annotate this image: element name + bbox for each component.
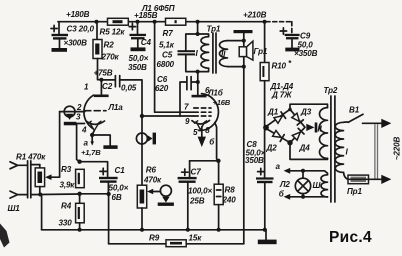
svg-text:R2: R2: [104, 41, 115, 50]
svg-text:+180В: +180В: [66, 10, 90, 19]
svg-text:5: 5: [193, 128, 198, 137]
svg-text:Тр2: Тр2: [324, 86, 338, 95]
tube L1b pentode envelope: [199, 94, 219, 131]
capacitor C7 100,0x25V: [178, 161, 213, 230]
svg-text:3: 3: [76, 113, 81, 122]
ground bar under C4: [131, 47, 146, 51]
Tr1 core: [207, 25, 221, 74]
svg-text:100,0×: 100,0×: [188, 187, 213, 196]
svg-text:R4: R4: [61, 202, 72, 211]
wire screen grid feed to pin 7: [155, 22, 194, 113]
svg-text:+185В: +185В: [134, 11, 158, 20]
potentiometer R1 470k: [16, 153, 46, 195]
wire switch to mains arrow: [363, 122, 383, 124]
node +210V label: [243, 11, 267, 20]
capacitor C1 50,0x6V: [80, 162, 129, 202]
wire grid line L1a: [60, 111, 85, 113]
svg-text:4: 4: [81, 126, 87, 135]
svg-text:Д2: Д2: [266, 144, 278, 153]
Tr2 winding II: [320, 108, 328, 159]
Tr2 winding I mains: [335, 122, 349, 179]
L1b anode: [192, 72, 211, 98]
node junction +210V rail: [263, 20, 267, 24]
resistor R5 12k: [100, 18, 129, 36]
svg-text:0,05: 0,05: [121, 84, 137, 93]
resistor R8 240: [214, 161, 236, 230]
label +75V: [94, 69, 113, 78]
svg-text:С6: С6: [157, 75, 168, 84]
node +180V label: [66, 10, 90, 19]
label Ris.4: [329, 229, 372, 246]
Tr2 core: [324, 86, 338, 202]
test point a stub: [81, 135, 101, 157]
node junction screen feed: [153, 20, 157, 24]
wire bus left riser: [41, 195, 43, 230]
svg-text:а: а: [276, 162, 281, 171]
svg-text:6800: 6800: [157, 60, 175, 69]
node junction C4: [136, 20, 140, 24]
wire rail to bridge: [264, 81, 266, 128]
svg-text:470к: 470к: [143, 176, 162, 185]
node bridge bottom vertex: [287, 140, 292, 145]
svg-text:Рис.4: Рис.4: [329, 229, 372, 246]
test point R6 wiper: [158, 185, 174, 206]
svg-text:9: 9: [185, 117, 190, 126]
L1b grid dashes: [184, 103, 211, 127]
svg-text:+210В: +210В: [243, 11, 267, 20]
svg-text:620: 620: [155, 84, 169, 93]
L1a grid dashes: [76, 103, 106, 112]
diode D1: [267, 108, 286, 124]
L1b cathode: [192, 120, 210, 124]
wire down to R6: [141, 116, 143, 185]
wire pin8 down: [215, 123, 219, 161]
svg-text:С3 20,0: С3 20,0: [67, 25, 95, 34]
test point on grid wire: [136, 133, 156, 145]
svg-text:~220В: ~220В: [393, 137, 402, 161]
svg-text:240: 240: [222, 196, 237, 205]
L1b heater: [195, 121, 207, 130]
svg-text:50,0×: 50,0×: [109, 184, 129, 193]
svg-text:Ш: Ш: [313, 181, 322, 190]
diode D3: [292, 108, 312, 126]
svg-text:50,0×: 50,0×: [129, 54, 149, 63]
wire input bottom to R3 node: [31, 193, 80, 196]
svg-text:15к: 15к: [189, 234, 203, 243]
potentiometer R6 470k: [137, 166, 162, 230]
svg-text:С7: С7: [191, 168, 202, 177]
diode D2: [266, 131, 285, 153]
wire heater to chassis: [92, 135, 110, 145]
node R3 bottom: [77, 192, 81, 196]
svg-text:R7: R7: [163, 29, 174, 38]
svg-text:Ш1: Ш1: [8, 204, 21, 213]
wire R2 to anode node: [98, 59, 102, 80]
node lamp top: [301, 169, 305, 173]
wire +210V rail down: [264, 22, 266, 63]
svg-text:Д4: Д4: [299, 144, 311, 153]
label winding II Tr2: [317, 125, 322, 134]
R1 wiper arm: [45, 112, 60, 180]
label L1a: [108, 103, 124, 112]
svg-text:а: а: [84, 139, 89, 148]
svg-text:Д 7Ж: Д 7Ж: [271, 91, 292, 100]
svg-text:×300В: ×300В: [64, 39, 88, 48]
scan artifact bottom left: [0, 224, 10, 248]
loudspeaker Gr1: [239, 41, 268, 60]
svg-text:Д1: Д1: [267, 108, 279, 117]
node dots on bus: [78, 228, 267, 232]
node dots on loop: [196, 32, 200, 74]
resistor R10*: [260, 59, 292, 81]
svg-text:2: 2: [76, 103, 82, 112]
ground bus: [42, 229, 266, 231]
resistor R4 330: [59, 194, 85, 230]
node C6 anode junction: [196, 80, 200, 84]
svg-text:R3: R3: [61, 165, 72, 174]
svg-text:Тр1: Тр1: [207, 25, 221, 34]
label L1 6F5P top: [141, 4, 175, 13]
wire C1 node down to R9: [108, 194, 110, 244]
ground bar under C9: [285, 48, 299, 52]
svg-text:+16В: +16В: [213, 98, 231, 107]
wire cathode pin3: [77, 124, 85, 162]
node anode junction: [99, 78, 103, 82]
mains arrow top: [381, 119, 391, 128]
wire +180V top rail: [58, 21, 264, 23]
diode bridge frame: [265, 109, 305, 142]
svg-text:270к: 270к: [101, 53, 120, 62]
svg-text:Л2: Л2: [279, 180, 290, 189]
svg-text:Пр1: Пр1: [347, 187, 362, 196]
ground T-bar speaker line: [234, 30, 253, 33]
svg-text:R9: R9: [149, 234, 160, 243]
svg-text:R8: R8: [225, 186, 236, 195]
svg-text:+1,7В: +1,7В: [81, 148, 101, 157]
svg-text:R1 470к: R1 470к: [16, 153, 46, 162]
node heater pin4: [90, 133, 94, 137]
resistor R9 15k feedback: [109, 234, 244, 247]
lamp circuit wire b: [279, 190, 328, 200]
capacitor C5 6800 with loop: [157, 34, 198, 72]
svg-text:С4: С4: [141, 38, 152, 47]
wire cathode node horizontal: [190, 160, 219, 162]
wire bridge AC loop to Tr2 winding II: [290, 104, 328, 159]
lamp circuit wire a: [276, 162, 328, 175]
switch V1: [344, 106, 364, 123]
svg-text:Д3: Д3: [300, 108, 312, 117]
resistor R7 5,1k: [159, 18, 186, 49]
svg-text:В1: В1: [349, 106, 360, 115]
L1a cathode: [76, 113, 105, 125]
svg-text:R5 12к: R5 12к: [100, 28, 126, 37]
Tr2 winding III: [313, 175, 328, 197]
R6 wiper arm: [147, 189, 160, 195]
svg-text:С2: С2: [102, 82, 113, 91]
transformer Tr1 primary winding I: [196, 34, 209, 72]
svg-text:7: 7: [184, 103, 189, 112]
node junction R2/top rail: [95, 20, 99, 24]
test point pin5 arrow b: [193, 126, 215, 147]
label +185V: [134, 11, 158, 20]
capacitor C6 620: [155, 75, 198, 116]
ground bar under C3: [52, 48, 68, 52]
node junction Tr1 top: [196, 20, 200, 24]
lamp L2: [279, 171, 311, 197]
node pin8/R8: [216, 159, 220, 163]
capacitor C4 50,0x350V: [128, 22, 151, 72]
node cathode / R3 top: [77, 160, 81, 164]
svg-text:Гр1: Гр1: [254, 47, 268, 56]
svg-text:3,9к: 3,9к: [60, 181, 76, 190]
svg-text:Л1б: Л1б: [207, 89, 224, 98]
capacitor C2 0,05: [101, 76, 142, 116]
svg-text:С9: С9: [300, 32, 311, 41]
fuse Pr1: [347, 175, 383, 196]
node bridge top vertex: [288, 108, 292, 112]
svg-text:350В: 350В: [128, 63, 147, 72]
node C2 output: [140, 114, 144, 118]
label ~220V rotated: [393, 137, 402, 161]
L1a heater: [81, 121, 101, 135]
mains cable lines: [375, 124, 378, 178]
connector Sh1 input: [8, 161, 31, 213]
test point grid L1a: [64, 106, 77, 125]
svg-text:6В: 6В: [112, 193, 122, 202]
svg-text:+75В: +75В: [94, 69, 113, 78]
diode D4: [292, 128, 310, 152]
ground symbol bus right: [258, 230, 277, 244]
svg-text:Л1а: Л1а: [108, 103, 124, 112]
svg-text:330: 330: [59, 219, 73, 228]
wire to C5/winding loop: [197, 22, 199, 34]
svg-text:25В: 25В: [189, 197, 205, 206]
ground bar heater: [103, 145, 117, 149]
node R1 bottom: [38, 193, 42, 197]
svg-text:С5: С5: [162, 51, 173, 60]
capacitor C8 50,0x350V: [245, 128, 274, 230]
capacitor C3: [51, 22, 94, 48]
wire grid1 line L1b: [142, 115, 194, 117]
label L1b: [207, 89, 231, 108]
resistor R2 270k: [93, 22, 120, 62]
svg-text:5,1к: 5,1к: [159, 41, 175, 50]
node C1 bottom: [106, 192, 110, 196]
node bridge left vertex: [263, 125, 269, 131]
Tr1 secondary winding II: [220, 41, 244, 67]
tube L1a triode envelope: [84, 95, 94, 128]
svg-text:350В: 350В: [245, 156, 264, 165]
label D1-D4 D7Zh: [270, 82, 294, 100]
svg-text:R10: R10: [272, 62, 287, 71]
node dots speaker line: [242, 39, 246, 69]
mains arrow bottom: [381, 175, 391, 184]
node lamp bottom: [301, 195, 305, 199]
L1a anode: [84, 80, 109, 97]
svg-text:R6: R6: [146, 166, 157, 175]
svg-text:8: 8: [205, 126, 210, 135]
svg-text:1: 1: [84, 83, 89, 92]
capacitor C9 dashed branch: [266, 22, 318, 58]
svg-text:С1: С1: [115, 166, 126, 175]
diode arrow at right vertex: [306, 123, 317, 133]
wire speaker/NFB vertical: [243, 33, 245, 244]
resistor R3 3,9k: [60, 165, 85, 190]
